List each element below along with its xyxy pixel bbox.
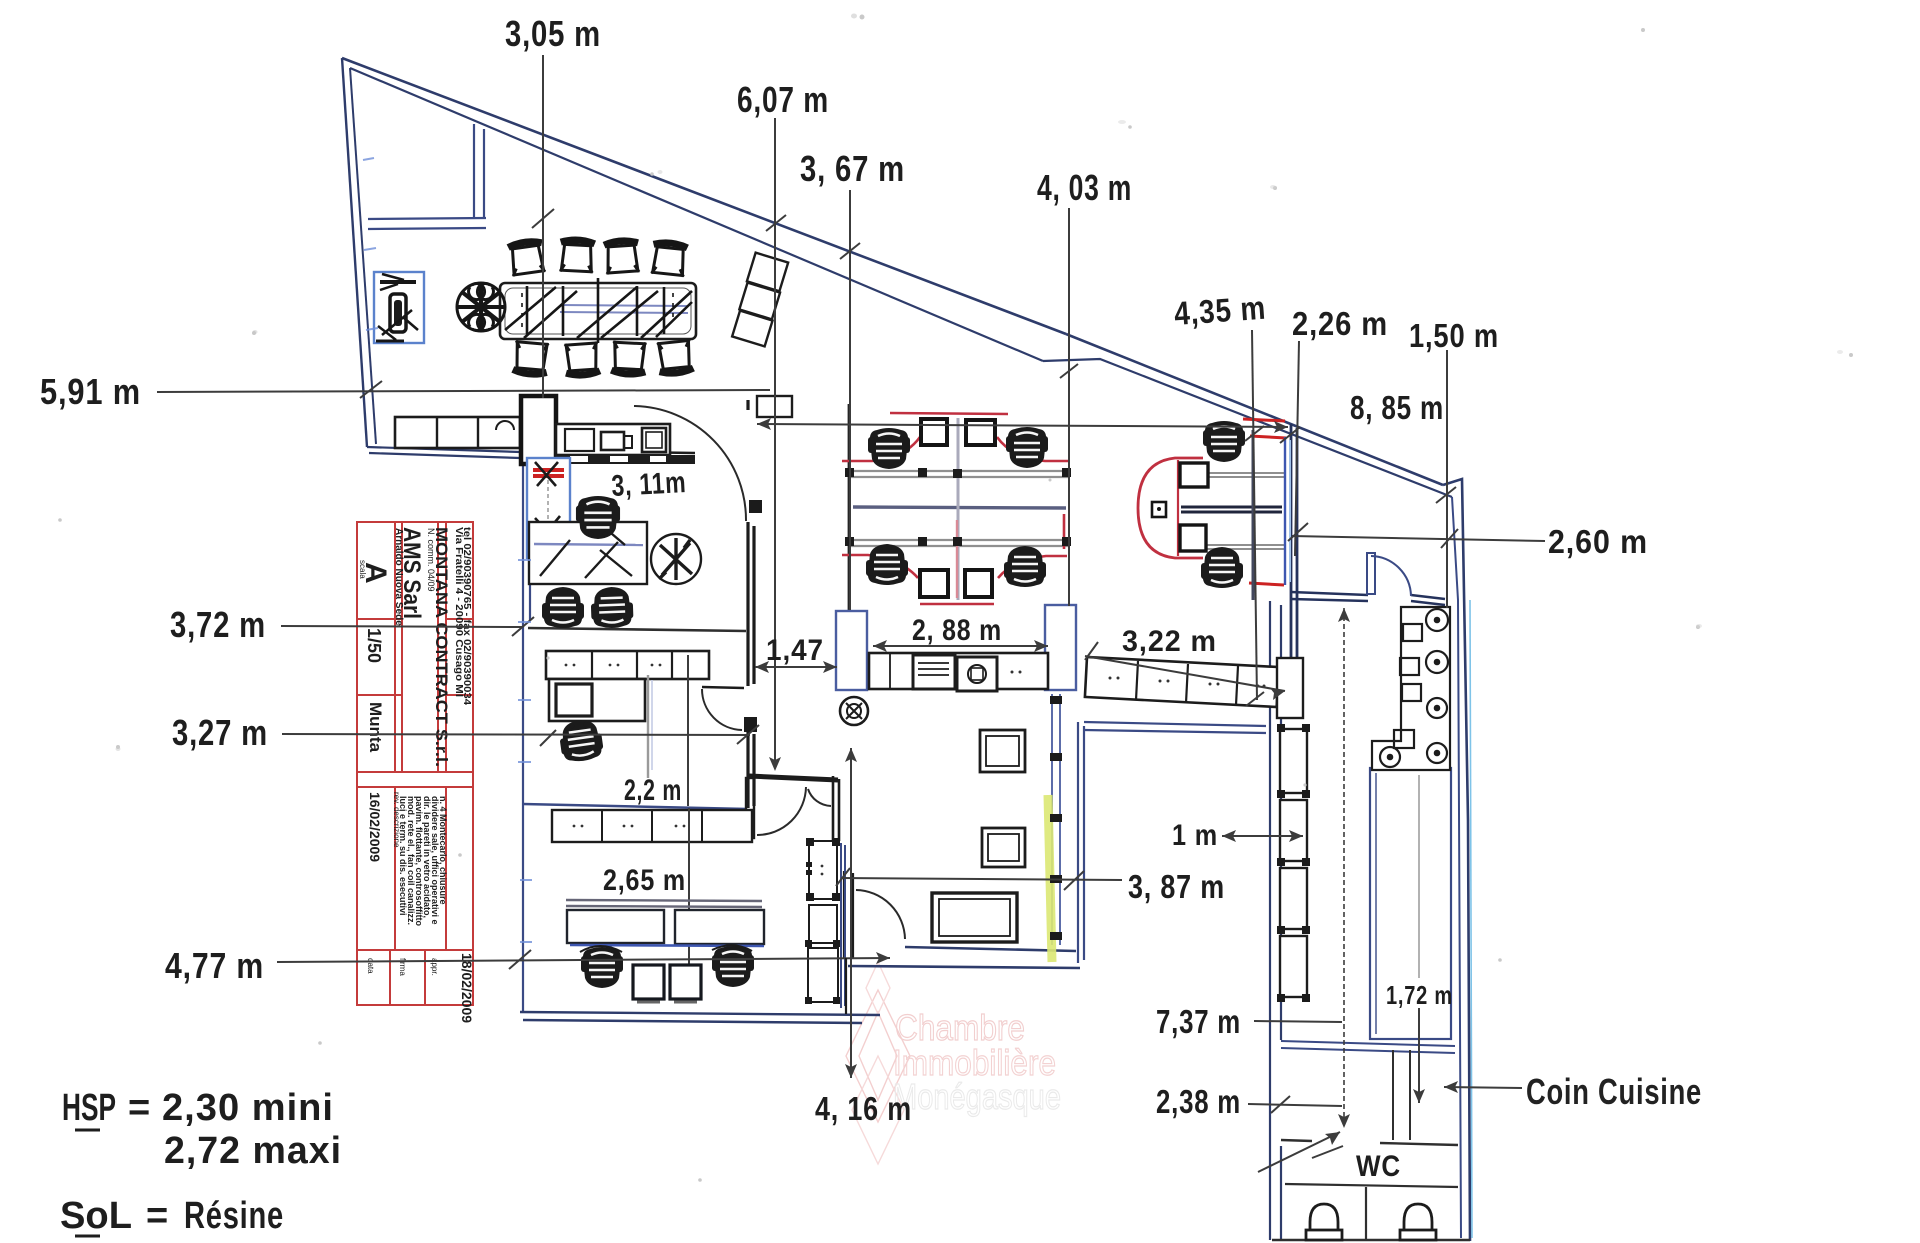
svg-text:1 m: 1 m (1172, 819, 1218, 852)
svg-text:1,47: 1,47 (766, 634, 824, 667)
svg-text:luci e term. su dis. esecutivi: luci e term. su dis. esecutivi (398, 796, 408, 916)
svg-text:3, 67 m: 3, 67 m (800, 148, 905, 189)
svg-text:7,37 m: 7,37 m (1156, 1003, 1241, 1040)
svg-text:2,65 m: 2,65 m (603, 864, 686, 897)
svg-text:3,22 m: 3,22 m (1122, 625, 1217, 658)
svg-text:MONTANA CONTRACT S.r.l.: MONTANA CONTRACT S.r.l. (432, 527, 451, 767)
svg-text:4,77 m: 4,77 m (165, 945, 264, 986)
svg-text:=: = (128, 1087, 151, 1129)
svg-text:Monégasque: Monégasque (893, 1076, 1061, 1117)
svg-text:2,30 mini: 2,30 mini (162, 1087, 334, 1129)
svg-text:2,26 m: 2,26 m (1292, 305, 1388, 342)
svg-text:6,07 m: 6,07 m (737, 79, 829, 120)
svg-text:3,27 m: 3,27 m (172, 712, 268, 753)
svg-text:2, 88 m: 2, 88 m (912, 614, 1002, 647)
svg-text:3,72 m: 3,72 m (170, 604, 266, 645)
svg-text:scala: scala (358, 560, 367, 579)
svg-text:Munta: Munta (366, 702, 385, 753)
svg-text:8, 85 m: 8, 85 m (1350, 389, 1444, 426)
svg-text:4, 03 m: 4, 03 m (1037, 167, 1132, 208)
svg-text:HSP: HSP (62, 1087, 116, 1129)
svg-text:Résine: Résine (184, 1195, 284, 1237)
svg-text:1/50: 1/50 (364, 628, 384, 663)
svg-text:2,38 m: 2,38 m (1156, 1083, 1241, 1120)
svg-text:=: = (146, 1195, 169, 1237)
svg-text:3, 87 m: 3, 87 m (1128, 868, 1225, 905)
svg-text:3, 11m: 3, 11m (611, 466, 688, 503)
svg-text:Arnaldo Nuova Sede: Arnaldo Nuova Sede (393, 528, 404, 626)
svg-text:2,2 m: 2,2 m (624, 774, 682, 807)
svg-text:3,05 m: 3,05 m (505, 13, 601, 54)
svg-text:5,91 m: 5,91 m (40, 371, 141, 412)
svg-text:1,50 m: 1,50 m (1409, 317, 1499, 354)
svg-text:1,72 m: 1,72 m (1386, 980, 1453, 1010)
svg-text:2,60 m: 2,60 m (1548, 523, 1648, 560)
svg-text:tel 02/90390765 - fax 02/90390: tel 02/90390765 - fax 02/90390034 (461, 527, 472, 705)
svg-text:4, 16 m: 4, 16 m (815, 1090, 912, 1127)
svg-text:Coin Cuisine: Coin Cuisine (1526, 1071, 1702, 1112)
svg-text:16/02/2009: 16/02/2009 (367, 792, 383, 862)
svg-text:18/02/2009: 18/02/2009 (459, 953, 475, 1023)
svg-text:WC: WC (1356, 1150, 1401, 1183)
svg-text:SoL: SoL (60, 1195, 132, 1237)
svg-text:4,35 m: 4,35 m (1173, 289, 1267, 332)
svg-text:2,72 maxi: 2,72 maxi (164, 1130, 342, 1172)
